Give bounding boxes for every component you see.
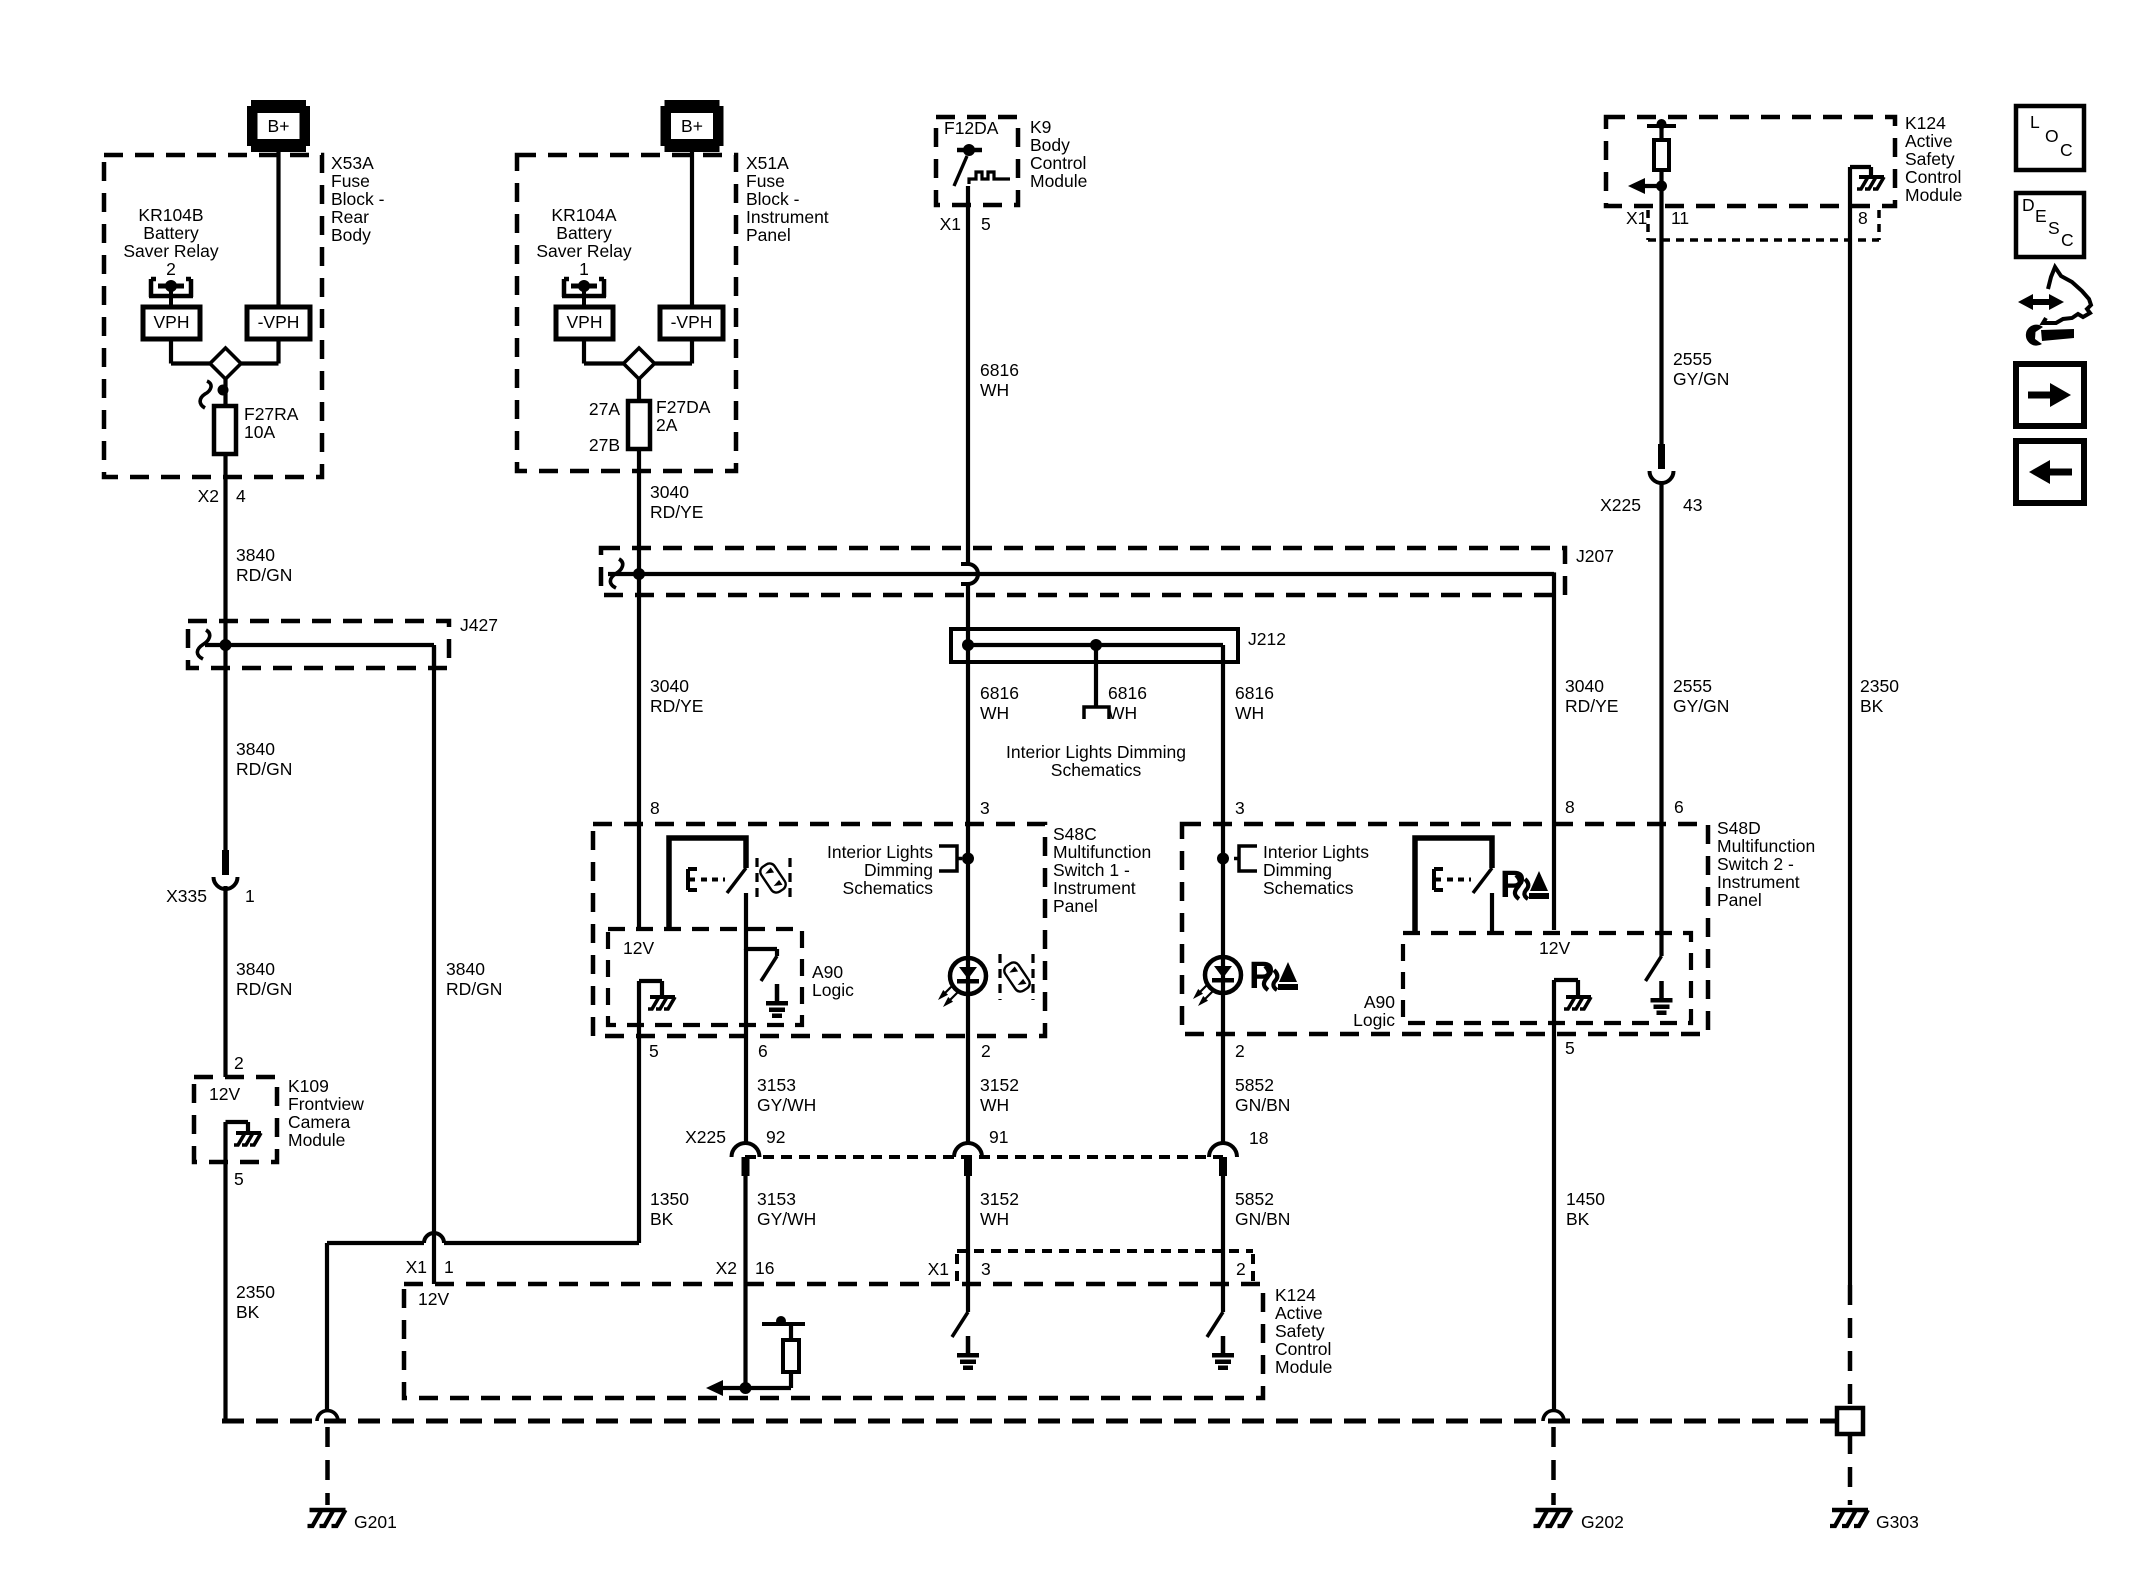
svg-text:6816: 6816 <box>1235 683 1274 703</box>
svg-text:X1: X1 <box>1626 208 1647 228</box>
S48D switch housing <box>1415 838 1492 931</box>
svg-text:Dimming: Dimming <box>864 860 933 880</box>
LED S48C backlight <box>950 958 986 994</box>
diagnostic icon outline <box>2043 267 2091 323</box>
resistor in K124 <box>1659 128 1663 140</box>
svg-text:GY/WH: GY/WH <box>757 1095 816 1115</box>
J212 bus wire <box>968 643 1223 647</box>
svg-text:BK: BK <box>236 1302 260 1322</box>
svg-text:Control: Control <box>1275 1339 1331 1359</box>
svg-text:Schematics: Schematics <box>1263 878 1354 898</box>
svg-text:X335: X335 <box>166 886 207 906</box>
logic block A90 box (S48C) <box>608 929 802 1025</box>
svg-text:Body: Body <box>331 225 371 245</box>
svg-text:Panel: Panel <box>746 225 791 245</box>
svg-text:3840: 3840 <box>236 959 275 979</box>
svg-text:8: 8 <box>650 798 660 818</box>
svg-text:3152: 3152 <box>980 1075 1019 1095</box>
wire S48D pin5 to G202 <box>1552 1034 1556 1412</box>
wire K124 pin 11 to X225 <box>1659 206 1663 446</box>
svg-text:Interior Lights: Interior Lights <box>1263 842 1369 862</box>
svg-text:X225: X225 <box>1600 495 1641 515</box>
junction dot S48C pin3 wire <box>962 853 974 865</box>
earth ground (X1-2) <box>1221 1336 1226 1353</box>
svg-text:Control: Control <box>1905 167 1961 187</box>
net VPH box <box>143 307 200 339</box>
icon box arrow right <box>2016 364 2084 426</box>
svg-text:Safety: Safety <box>1905 149 1955 169</box>
J207 bus wire <box>608 572 1554 576</box>
svg-text:F27RA: F27RA <box>244 404 299 424</box>
wire hop 3840 over 1350 BK <box>424 1233 444 1243</box>
svg-text:1: 1 <box>444 1257 454 1277</box>
K124 internal supply bar <box>1647 124 1676 128</box>
off-page bracket S48C <box>939 846 962 871</box>
svg-text:91: 91 <box>989 1127 1008 1147</box>
car icon (S48C LED) <box>1002 960 1032 994</box>
splice square G303 node <box>1837 1408 1863 1434</box>
fuse F27DA <box>628 401 650 449</box>
signal arrow (left) in bottom K124 <box>722 1386 746 1390</box>
svg-text:2: 2 <box>1236 1259 1246 1279</box>
svg-text:3: 3 <box>981 1259 991 1279</box>
svg-text:Module: Module <box>1030 171 1087 191</box>
wire J212 middle stub <box>1094 645 1098 707</box>
off-page bracket S48D <box>1234 846 1257 871</box>
active safety control module K124 (top) box <box>1606 117 1895 206</box>
svg-text:A90: A90 <box>812 962 843 982</box>
car icon (S48C switch) <box>758 861 788 895</box>
svg-text:L: L <box>2030 112 2040 132</box>
fuse F12DA symbol <box>957 148 982 153</box>
svg-text:2350: 2350 <box>236 1282 275 1302</box>
svg-text:GN/BN: GN/BN <box>1235 1209 1290 1229</box>
svg-text:5: 5 <box>981 214 991 234</box>
svg-text:2: 2 <box>166 259 176 279</box>
svg-text:3040: 3040 <box>650 676 689 696</box>
svg-text:2555: 2555 <box>1673 349 1712 369</box>
ground switch blade (X1-2) <box>1207 1312 1223 1337</box>
svg-text:GY/WH: GY/WH <box>757 1209 816 1229</box>
G201 dashed lead <box>325 1427 330 1505</box>
svg-text:Active: Active <box>1905 131 1953 151</box>
svg-text:Multifunction: Multifunction <box>1053 842 1151 862</box>
wire S48C LED to pin 2 <box>966 858 970 1143</box>
junction dot K124 input <box>740 1382 752 1394</box>
S48C pin5 internal ground wire <box>637 981 641 1036</box>
svg-text:Logic: Logic <box>812 980 854 1000</box>
svg-text:12V: 12V <box>209 1084 240 1104</box>
wire fuse to X2 pin 4 <box>223 454 227 852</box>
multifunction switch S48C box <box>593 824 1045 1036</box>
junction dot J427 <box>220 639 232 651</box>
svg-text:S: S <box>2048 218 2060 238</box>
svg-text:WH: WH <box>1235 703 1264 723</box>
K124 internal chassis ground <box>1859 175 1884 179</box>
svg-text:3840: 3840 <box>236 545 275 565</box>
svg-text:43: 43 <box>1683 495 1702 515</box>
svg-text:X51A: X51A <box>746 153 789 173</box>
splice pack J427 box <box>188 621 449 668</box>
splice J212 box <box>951 629 1238 662</box>
svg-text:RD/GN: RD/GN <box>236 759 292 779</box>
S48D switch output stub <box>1490 893 1494 933</box>
svg-text:92: 92 <box>766 1127 785 1147</box>
K124 internal ground wire <box>1848 167 1852 206</box>
svg-text:5852: 5852 <box>1235 1189 1274 1209</box>
G201 tap arc <box>317 1411 338 1421</box>
connector X335 pin 1 <box>222 850 229 875</box>
signal arrow (left) in K124 <box>1640 184 1662 188</box>
diagnostic icon wrench <box>2041 329 2074 341</box>
wire 3840 from J427 down to K124 pin X1-1 <box>432 647 436 1284</box>
wire X1-2 into K124 <box>1221 1176 1225 1312</box>
svg-text:4: 4 <box>236 486 246 506</box>
splice pack J207 box <box>601 548 1565 595</box>
svg-text:WH: WH <box>980 703 1009 723</box>
G303 dashed lead <box>1848 1434 1853 1505</box>
multifunction switch S48D box <box>1182 824 1708 1034</box>
wire 6816 J207 to J212 <box>966 584 970 645</box>
svg-text:2350: 2350 <box>1860 676 1899 696</box>
svg-text:G201: G201 <box>354 1512 397 1532</box>
connector X225 dotted line <box>745 1155 1223 1159</box>
svg-text:Saver Relay: Saver Relay <box>123 241 219 261</box>
svg-text:J207: J207 <box>1576 546 1614 566</box>
svg-text:RD/GN: RD/GN <box>236 565 292 585</box>
active safety control module K124 (bottom) box <box>404 1284 1263 1398</box>
svg-text:J427: J427 <box>460 615 498 635</box>
icon box arrow left <box>2016 441 2084 503</box>
junction diamond X51A <box>624 348 655 379</box>
wire 2350 BK dashed to G303 <box>1848 1285 1853 1408</box>
svg-text:2A: 2A <box>656 415 678 435</box>
svg-text:Instrument: Instrument <box>1717 872 1800 892</box>
wire X1-3 into K124 <box>966 1176 970 1312</box>
S48D switch E-control <box>1434 869 1443 890</box>
connector X1 strip (bottom K124) <box>957 1250 1253 1281</box>
svg-text:X225: X225 <box>685 1127 726 1147</box>
S48C switch blade <box>727 868 746 893</box>
icon box DESC <box>2016 193 2084 257</box>
J427 splice curl <box>197 630 209 659</box>
wire B+ to -VPH (X51A) <box>690 152 694 307</box>
svg-text:Interior Lights Dimming: Interior Lights Dimming <box>1006 742 1186 762</box>
junction dot J207/3040 <box>633 568 645 580</box>
junction dot J212 middle <box>1090 639 1102 651</box>
svg-text:Panel: Panel <box>1053 896 1098 916</box>
svg-text:Interior Lights: Interior Lights <box>827 842 933 862</box>
frontview camera module K109 box <box>194 1077 277 1162</box>
S48C switch housing <box>669 838 746 931</box>
ground G303 <box>1832 1508 1868 1513</box>
svg-text:Fuse: Fuse <box>746 171 785 191</box>
wire hop 6816 over J207 bus <box>968 564 978 584</box>
svg-text:C: C <box>2061 230 2074 250</box>
wire X225 43 to S48D pin 6 <box>1659 483 1663 956</box>
G202 tap arc <box>1543 1411 1564 1422</box>
svg-text:16: 16 <box>755 1258 774 1278</box>
svg-text:Fuse: Fuse <box>331 171 370 191</box>
svg-text:RD/YE: RD/YE <box>650 696 703 716</box>
svg-text:Schematics: Schematics <box>1051 760 1142 780</box>
svg-text:A90: A90 <box>1364 992 1395 1012</box>
S48D A90 switch blade <box>1646 956 1662 981</box>
wire X2-16 into K124 <box>743 1176 747 1388</box>
svg-text:2: 2 <box>981 1041 991 1061</box>
S48D A90 earth ground <box>1659 981 1664 998</box>
svg-text:S48D: S48D <box>1717 818 1761 838</box>
S48C switch output stub <box>744 893 748 950</box>
svg-text:3040: 3040 <box>650 482 689 502</box>
svg-text:5: 5 <box>649 1041 659 1061</box>
svg-text:Battery: Battery <box>143 223 199 243</box>
svg-text:D: D <box>2022 195 2035 215</box>
svg-text:1350: 1350 <box>650 1189 689 1209</box>
svg-text:Module: Module <box>288 1130 345 1150</box>
net VPH box (X51A) <box>556 307 613 339</box>
svg-text:Block -: Block - <box>331 189 385 209</box>
fuse block X53A box <box>104 155 322 477</box>
J427 bus wire <box>205 643 434 647</box>
svg-text:6: 6 <box>1674 797 1684 817</box>
svg-text:6816: 6816 <box>1108 683 1147 703</box>
connector X225 pin 92 <box>732 1143 760 1157</box>
wire diamond to fuse <box>223 379 227 406</box>
svg-text:-VPH: -VPH <box>258 312 300 332</box>
logic block A90 box (S48D) <box>1403 933 1691 1023</box>
svg-text:Switch 2 -: Switch 2 - <box>1717 854 1794 874</box>
svg-text:RD/GN: RD/GN <box>446 979 502 999</box>
svg-text:Rear: Rear <box>331 207 369 227</box>
svg-text:Multifunction: Multifunction <box>1717 836 1815 856</box>
svg-text:1: 1 <box>245 886 255 906</box>
svg-text:Module: Module <box>1905 185 1962 205</box>
svg-text:Schematics: Schematics <box>843 878 934 898</box>
wire S48C pin6 <box>744 949 748 1143</box>
splice hook at fuse feed <box>200 381 211 408</box>
svg-text:WH: WH <box>1108 703 1137 723</box>
svg-text:2555: 2555 <box>1673 676 1712 696</box>
svg-text:3840: 3840 <box>236 739 275 759</box>
svg-text:18: 18 <box>1249 1128 1268 1148</box>
svg-text:O: O <box>2045 126 2059 146</box>
svg-text:Module: Module <box>1275 1357 1332 1377</box>
connector X225 pin 43 <box>1658 444 1665 469</box>
svg-text:Instrument: Instrument <box>746 207 829 227</box>
svg-text:2: 2 <box>234 1053 244 1073</box>
svg-text:B+: B+ <box>268 116 290 136</box>
ground switch blade (X1-3) <box>952 1312 968 1337</box>
svg-text:GY/GN: GY/GN <box>1673 696 1729 716</box>
svg-text:Panel: Panel <box>1717 890 1762 910</box>
svg-text:E: E <box>2035 206 2047 226</box>
ground G201 <box>310 1508 346 1513</box>
svg-text:P: P <box>1500 864 1525 906</box>
wire -VPH to diamond (X51A) <box>690 339 694 364</box>
svg-text:BK: BK <box>650 1209 674 1229</box>
svg-text:Safety: Safety <box>1275 1321 1325 1341</box>
svg-text:5852: 5852 <box>1235 1075 1274 1095</box>
svg-text:KR104B: KR104B <box>138 205 203 225</box>
pull-up wire to resistor <box>746 1386 792 1390</box>
S48D switch blade <box>1473 868 1492 893</box>
car icon flank lines (S48C LED) <box>998 954 1001 1000</box>
supply bar in bottom K124 <box>762 1322 805 1326</box>
S48D pin5 internal ground wire <box>1552 980 1556 1034</box>
svg-text:6816: 6816 <box>980 360 1019 380</box>
ground rail dashed line <box>222 1419 1836 1424</box>
svg-text:Block -: Block - <box>746 189 800 209</box>
svg-text:K109: K109 <box>288 1076 329 1096</box>
svg-text:P: P <box>1249 955 1274 997</box>
wire J207 to S48D pin 8 <box>1552 572 1556 930</box>
power feed B+ (second) <box>665 100 720 152</box>
svg-text:Battery: Battery <box>556 223 612 243</box>
svg-text:3: 3 <box>980 798 990 818</box>
diagnostic icon arrows <box>2030 299 2052 305</box>
svg-text:BK: BK <box>1566 1209 1590 1229</box>
svg-text:S48C: S48C <box>1053 824 1097 844</box>
net -VPH box (X51A) <box>660 307 723 339</box>
svg-text:J212: J212 <box>1248 629 1286 649</box>
junction dot K124 output <box>1656 181 1667 192</box>
wire K124 pin 8 ground 2350 BK <box>1848 206 1852 1285</box>
svg-text:8: 8 <box>1858 208 1868 228</box>
svg-text:K124: K124 <box>1275 1285 1316 1305</box>
wire VPH to diamond (X51A) <box>582 339 586 364</box>
connector X225 pin 91 <box>954 1143 982 1157</box>
J207 splice curl <box>610 559 622 588</box>
wire J212 to S48D pin 3 <box>1221 645 1225 859</box>
relay KR104A coil terminal <box>564 279 569 297</box>
svg-text:X2: X2 <box>716 1258 737 1278</box>
svg-text:6: 6 <box>758 1041 768 1061</box>
svg-text:F27DA: F27DA <box>656 397 711 417</box>
svg-text:X1: X1 <box>928 1259 949 1279</box>
svg-text:3153: 3153 <box>757 1189 796 1209</box>
svg-text:G303: G303 <box>1876 1512 1919 1532</box>
svg-text:Control: Control <box>1030 153 1086 173</box>
S48C internal chassis ground <box>650 995 675 999</box>
wire diamond to fuse F27DA <box>637 379 641 401</box>
S48C switch E-control <box>688 869 697 890</box>
svg-text:2: 2 <box>1235 1041 1245 1061</box>
svg-text:-VPH: -VPH <box>671 312 713 332</box>
svg-text:Saver Relay: Saver Relay <box>536 241 632 261</box>
fuse F27RA <box>214 406 236 454</box>
wire K109 pin5 ground lead 2350 BK <box>223 1162 227 1421</box>
svg-text:K124: K124 <box>1905 113 1946 133</box>
svg-text:1450: 1450 <box>1566 1189 1605 1209</box>
svg-text:5: 5 <box>1565 1038 1575 1058</box>
LED S48D backlight <box>1205 957 1241 993</box>
earth ground (X1-3) <box>966 1336 971 1353</box>
svg-text:WH: WH <box>980 1209 1009 1229</box>
svg-text:RD/YE: RD/YE <box>650 502 703 522</box>
K109 internal chassis ground <box>236 1131 261 1135</box>
wire S48D LED to pin 2 <box>1221 858 1225 1143</box>
svg-text:X53A: X53A <box>331 153 374 173</box>
junction diamond X53A <box>210 348 241 379</box>
svg-text:Logic: Logic <box>1353 1010 1395 1030</box>
svg-text:Frontview: Frontview <box>288 1094 364 1114</box>
resistor in bottom K124 <box>783 1340 799 1372</box>
svg-text:5: 5 <box>234 1169 244 1189</box>
wire resistor to output node <box>1659 170 1663 206</box>
ground G202 <box>1536 1508 1572 1513</box>
svg-text:Active: Active <box>1275 1303 1323 1323</box>
K109 internal ground wire <box>223 1122 227 1162</box>
junction dot above fuse F27RA <box>218 385 229 396</box>
S48C A90 switch blade <box>761 956 777 981</box>
S48C A90 earth ground <box>775 984 780 1001</box>
wire S48C pin5 1350 BK down <box>637 1036 641 1243</box>
svg-text:X1: X1 <box>940 214 961 234</box>
svg-text:RD/YE: RD/YE <box>1565 696 1618 716</box>
svg-text:WH: WH <box>980 1095 1009 1115</box>
wire fuse F27DA down to S48C pin 8 <box>637 449 641 929</box>
svg-text:C: C <box>2060 140 2073 160</box>
wire J212 to S48C pin 3 <box>966 645 970 858</box>
wire F12DA to X1 pin 5 <box>966 186 970 564</box>
svg-text:3040: 3040 <box>1565 676 1604 696</box>
net -VPH box <box>247 307 310 339</box>
svg-text:KR104A: KR104A <box>551 205 617 225</box>
svg-text:X2: X2 <box>198 486 219 506</box>
off-page bracket (dimming schematics) <box>1084 707 1109 719</box>
svg-text:3: 3 <box>1235 798 1245 818</box>
svg-text:GN/BN: GN/BN <box>1235 1095 1290 1115</box>
svg-text:K9: K9 <box>1030 117 1051 137</box>
svg-text:WH: WH <box>980 380 1009 400</box>
svg-text:3840: 3840 <box>446 959 485 979</box>
relay KR104B coil terminal <box>151 279 156 297</box>
wire 1350 BK horizontal run <box>444 1241 639 1245</box>
svg-text:Dimming: Dimming <box>1263 860 1332 880</box>
G202 dashed lead <box>1551 1427 1556 1505</box>
S48C A90 switch jog <box>746 947 777 951</box>
svg-text:1: 1 <box>579 259 589 279</box>
svg-text:12V: 12V <box>623 938 654 958</box>
svg-text:3153: 3153 <box>757 1075 796 1095</box>
svg-text:G202: G202 <box>1581 1512 1624 1532</box>
S48D internal chassis ground <box>1566 995 1591 999</box>
svg-text:11: 11 <box>1671 208 1689 228</box>
svg-text:GY/GN: GY/GN <box>1673 369 1729 389</box>
svg-text:8: 8 <box>1565 797 1575 817</box>
svg-text:12V: 12V <box>418 1289 449 1309</box>
svg-text:X1: X1 <box>406 1257 427 1277</box>
wire X335 to camera module <box>223 886 227 1077</box>
svg-text:Switch 1 -: Switch 1 - <box>1053 860 1130 880</box>
svg-text:27B: 27B <box>589 435 620 455</box>
connector X1 strip below K124 <box>1648 210 1879 240</box>
wire VPH to diamond <box>169 339 173 364</box>
car icon flank lines (S48C switch) <box>755 858 758 898</box>
svg-text:Body: Body <box>1030 135 1070 155</box>
svg-text:RD/GN: RD/GN <box>236 979 292 999</box>
junction dot S48D pin3 wire <box>1217 853 1229 865</box>
connector X225 pin 18 <box>1209 1143 1237 1157</box>
wire B+ to -VPH <box>276 152 280 307</box>
svg-text:F12DA: F12DA <box>944 118 999 138</box>
body control module K9 / fuse F12DA box <box>936 117 1018 205</box>
svg-text:VPH: VPH <box>567 312 603 332</box>
junction dot J212 left <box>962 639 974 651</box>
wire -VPH to diamond <box>276 339 280 364</box>
fuse block X51A box <box>517 155 736 471</box>
